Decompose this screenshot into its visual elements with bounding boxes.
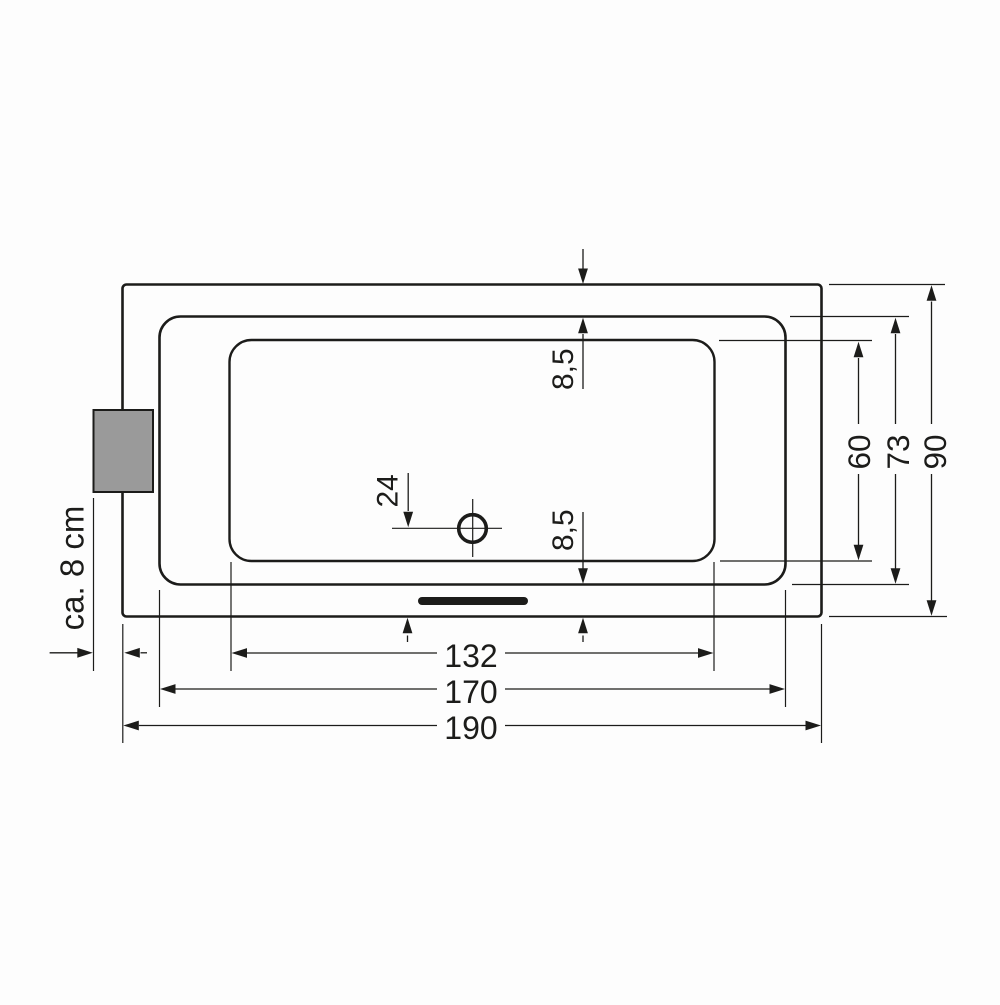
gray fitting box on left <box>94 410 154 492</box>
dim ca.8: right outside arrow <box>124 648 140 658</box>
bottom extension line middle left <box>159 590 161 707</box>
svg-text:8,5: 8,5 <box>547 348 580 390</box>
outer tub rim rectangle 190x90 <box>123 285 822 617</box>
dim 132 horizontal <box>232 648 248 658</box>
bottom extension line outer right <box>821 624 823 743</box>
dim ca.8: left outside arrow <box>50 652 78 654</box>
dim 170 horizontal <box>160 684 176 694</box>
svg-text:73: 73 <box>880 434 916 469</box>
dim 24: down arrow to drain centerline <box>407 473 409 511</box>
svg-text:8,5: 8,5 <box>547 509 580 551</box>
bottom extension line inner right <box>713 562 715 671</box>
right extension line inner top <box>719 340 872 342</box>
svg-text:60: 60 <box>841 434 877 469</box>
dim 190 horizontal <box>123 721 139 731</box>
dim 73 vertical <box>891 318 901 334</box>
dim 8,5 bottom: up arrow below outer bottom edge <box>578 618 588 634</box>
dim 90 vertical <box>927 285 937 301</box>
right extension line outer bottom <box>829 616 947 618</box>
right extension line outer top <box>829 284 945 286</box>
dim 24: up arrow below outer bottom edge <box>403 618 413 634</box>
bottom extension line gray box left <box>93 498 95 671</box>
bottom extension line inner left <box>230 562 232 671</box>
svg-text:190: 190 <box>444 710 497 746</box>
bottom extension line outer left <box>122 624 124 743</box>
right extension line middle top <box>790 316 909 318</box>
bottom extension line middle right <box>785 590 787 707</box>
dim 8,5 top: up arrow below middle rim top edge <box>578 318 588 334</box>
dim 60 vertical <box>854 342 864 358</box>
right extension line inner bottom <box>720 560 872 562</box>
svg-text:132: 132 <box>444 638 497 674</box>
middle rim rectangle 170x73 <box>160 317 786 585</box>
top marker arrow pointing down at rim <box>582 249 584 269</box>
right extension line middle bottom <box>792 584 909 586</box>
svg-text:ca. 8 cm: ca. 8 cm <box>54 506 91 631</box>
overflow slot black bar <box>422 597 524 605</box>
inner basin rectangle 132x60 <box>230 340 715 561</box>
drain horizontal centerline <box>392 527 502 529</box>
svg-text:170: 170 <box>444 674 497 710</box>
drain circle <box>459 515 487 543</box>
svg-text:90: 90 <box>917 434 953 469</box>
svg-text:24: 24 <box>372 474 405 507</box>
drain vertical centerline <box>472 499 474 557</box>
dim 8,5 bottom: down arrow above middle rim bottom edge <box>582 512 584 569</box>
